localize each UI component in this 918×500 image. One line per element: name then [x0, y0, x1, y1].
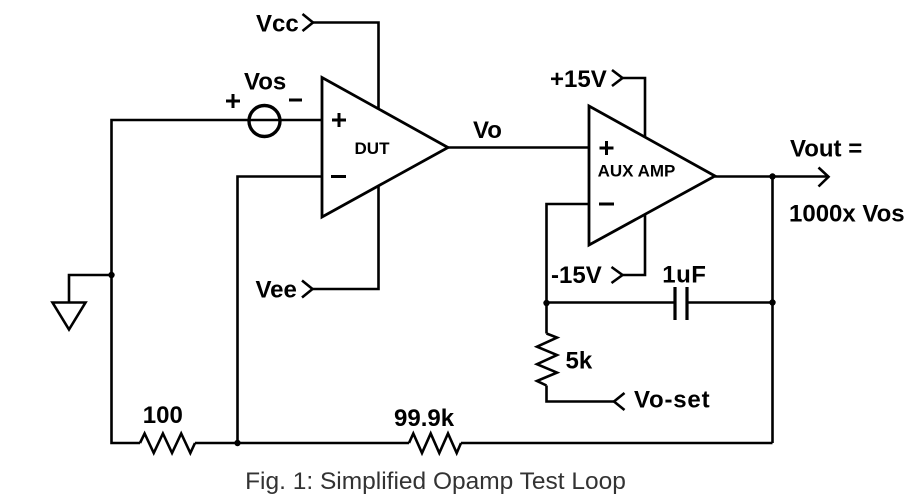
- minus sign DUT input: [331, 175, 346, 178]
- svg-text:Fig. 1: Simplified Opamp Test: Fig. 1: Simplified Opamp Test Loop: [245, 468, 626, 495]
- plus sign Vos left: [226, 94, 240, 108]
- svg-text:Vo: Vo: [473, 117, 502, 144]
- svg-text:AUX AMP: AUX AMP: [598, 162, 676, 181]
- Vcc terminal chevron: [303, 14, 314, 31]
- wire bottom between resistors: [195, 442, 409, 445]
- svg-text:Vos: Vos: [244, 69, 286, 96]
- capacitor C1 1uF plates: [675, 287, 687, 320]
- wire +15V to AUX top: [623, 78, 646, 138]
- node junction at 5k/cap: [543, 300, 549, 306]
- svg-text:5k: 5k: [566, 348, 593, 375]
- wire left loop: DUT + input to left vertical to bottom wire: [112, 120, 323, 443]
- wire cap right: [687, 301, 773, 304]
- wire AUX - input down to cap node: [547, 204, 590, 334]
- wire bottom right: [461, 442, 773, 445]
- wire Vo: DUT output to AUX + input: [448, 146, 589, 149]
- svg-text:1000x Vos: 1000x Vos: [789, 201, 905, 228]
- plus sign DUT input: [332, 113, 346, 127]
- wire 5k bottom to Vo-set: [547, 386, 615, 402]
- svg-text:Vo-set: Vo-set: [634, 387, 710, 414]
- svg-text:-15V: -15V: [551, 262, 602, 289]
- resistor R1 100 zigzag: [140, 434, 195, 454]
- arrow head Vout: [819, 168, 829, 187]
- op-amp U2 AUX AMP triangle: [589, 106, 715, 245]
- minus sign AUX input: [599, 203, 614, 206]
- svg-text:Vout =: Vout =: [790, 136, 862, 163]
- wire AUX output: [715, 175, 828, 178]
- plus sign AUX input: [600, 141, 614, 155]
- minus sign Vos right: [289, 99, 302, 102]
- node junction output: [769, 173, 775, 179]
- wire Vee to DUT bottom: [313, 187, 379, 290]
- Vo-set terminal chevron: [614, 393, 625, 410]
- ground: [53, 303, 86, 330]
- node junction left vertical/ground: [108, 272, 114, 278]
- wire Vcc to DUT top: [313, 23, 379, 109]
- resistor R2 99.9k zigzag: [409, 434, 461, 454]
- op-amp U1 DUT triangle: [322, 78, 448, 218]
- svg-text:Vee: Vee: [256, 277, 297, 304]
- +15V terminal chevron: [612, 70, 623, 86]
- svg-text:99.9k: 99.9k: [394, 405, 455, 432]
- voltage source Vos circle: [249, 106, 280, 137]
- wire -15V to AUX bottom: [623, 214, 646, 275]
- wire DUT - input feedback down to bottom wire: [238, 177, 323, 444]
- svg-text:+15V: +15V: [550, 66, 607, 93]
- svg-text:1uF: 1uF: [662, 262, 706, 289]
- wire right vertical down: [771, 177, 774, 444]
- node junction cap right: [769, 299, 775, 305]
- svg-text:DUT: DUT: [355, 139, 391, 158]
- wire cap left: [547, 301, 676, 304]
- wire ground stub: [69, 275, 112, 303]
- -15V terminal chevron: [612, 267, 623, 283]
- svg-text:Vcc: Vcc: [256, 11, 299, 38]
- Vee terminal chevron: [302, 281, 313, 298]
- node junction feedback/bottom wire: [234, 440, 240, 446]
- resistor R3 5k zigzag: [537, 334, 557, 386]
- svg-text:100: 100: [143, 402, 183, 429]
